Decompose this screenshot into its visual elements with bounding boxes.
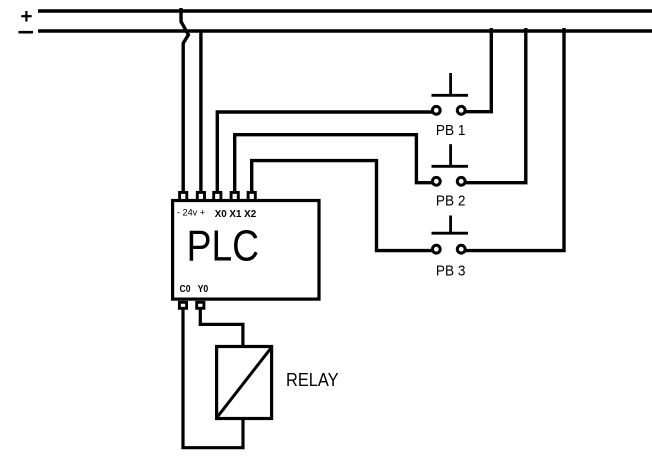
- svg-text:- 24v +: - 24v +: [177, 207, 205, 217]
- svg-text:RELAY: RELAY: [286, 369, 339, 390]
- svg-text:PB 3: PB 3: [436, 263, 466, 279]
- svg-text:PB 1: PB 1: [436, 123, 466, 139]
- svg-text:X0 X1 X2: X0 X1 X2: [215, 209, 257, 220]
- svg-text:C0: C0: [180, 284, 191, 295]
- svg-text:PB 2: PB 2: [436, 193, 466, 209]
- svg-text:PLC: PLC: [187, 223, 260, 271]
- svg-text:Y0: Y0: [198, 284, 209, 295]
